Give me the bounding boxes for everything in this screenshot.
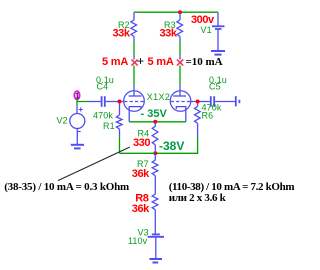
svg-text:V2: V2	[57, 116, 68, 126]
resistor R4	[133, 122, 158, 152]
svg-text:5 mA: 5 mA	[148, 56, 174, 68]
wire -35V cathode rail	[129, 121, 186, 123]
resistor R1	[93, 104, 122, 137]
triode X1X2 left half	[122, 85, 145, 122]
svg-text:+: +	[137, 54, 144, 69]
current probe X on R2 branch	[132, 60, 138, 66]
svg-text:C5: C5	[209, 82, 221, 92]
node 1 marker	[74, 91, 80, 101]
wire R6 to -38V rail	[155, 137, 197, 153]
node grid-right junction dot	[196, 100, 200, 104]
wire R2 to tube anode	[133, 37, 135, 42]
node -38V junction dot	[153, 151, 157, 155]
wire R3 to tube anode	[179, 37, 181, 42]
svg-text:- 35V: - 35V	[141, 108, 168, 120]
ground of V3	[150, 259, 163, 263]
resistor R6	[195, 103, 222, 138]
current probe X on R3 branch	[177, 60, 183, 66]
svg-text:(38-35) / 10 mA = 0.3 kOhm: (38-35) / 10 mA = 0.3 kOhm	[4, 181, 129, 193]
svg-text:R1: R1	[103, 121, 115, 131]
wire -38V rail left	[120, 152, 156, 154]
svg-text:1: 1	[75, 92, 80, 101]
resistor R7	[132, 153, 158, 190]
ground of V2	[71, 145, 84, 149]
svg-text:33k: 33k	[113, 28, 131, 40]
triode X1X2 right half	[170, 85, 195, 122]
battery V3	[128, 228, 164, 259]
ground of V1	[211, 51, 225, 55]
battery V1	[191, 12, 225, 50]
svg-text:X1X2: X1X2	[147, 92, 170, 102]
svg-text:V1: V1	[201, 25, 212, 35]
wire R1 to -38V rail	[119, 136, 121, 153]
node top junction dot	[178, 10, 182, 14]
wire top rail	[134, 11, 218, 13]
capacitor C5	[200, 75, 236, 107]
resistor R8	[132, 190, 158, 234]
svg-text:36k: 36k	[132, 168, 150, 180]
svg-text:R6: R6	[202, 111, 214, 121]
svg-text:=10 mA: =10 mA	[186, 56, 223, 68]
svg-text:-38V: -38V	[159, 139, 184, 153]
resistor R3	[160, 12, 183, 39]
svg-text:33k: 33k	[160, 28, 178, 40]
capacitor C4	[88, 75, 118, 107]
svg-text:5 mA: 5 mA	[102, 56, 128, 68]
source V2	[57, 102, 85, 145]
svg-text:470k: 470k	[93, 110, 113, 120]
svg-text:36k: 36k	[132, 203, 150, 215]
svg-text:110v: 110v	[128, 236, 148, 246]
annotation callout line	[58, 147, 130, 181]
node -35V junction dot	[153, 120, 157, 124]
open terminal after C5	[236, 96, 240, 106]
resistor R2	[113, 12, 137, 39]
svg-text:330: 330	[133, 137, 150, 149]
svg-text:C4: C4	[97, 82, 109, 92]
wire node1 corner	[77, 100, 88, 102]
svg-text:или 2 x 3.6 k: или 2 x 3.6 k	[169, 192, 227, 204]
node grid-left junction dot	[118, 100, 122, 104]
